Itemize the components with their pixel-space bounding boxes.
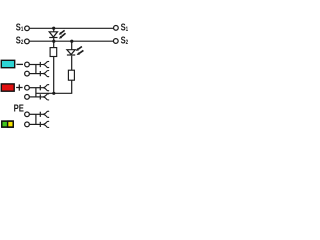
- svg-text:PE: PE: [14, 102, 24, 113]
- svg-text:S1: S1: [16, 21, 24, 33]
- svg-text:S2: S2: [121, 34, 129, 46]
- svg-text:S1: S1: [121, 21, 129, 33]
- svg-text:S2: S2: [16, 34, 24, 46]
